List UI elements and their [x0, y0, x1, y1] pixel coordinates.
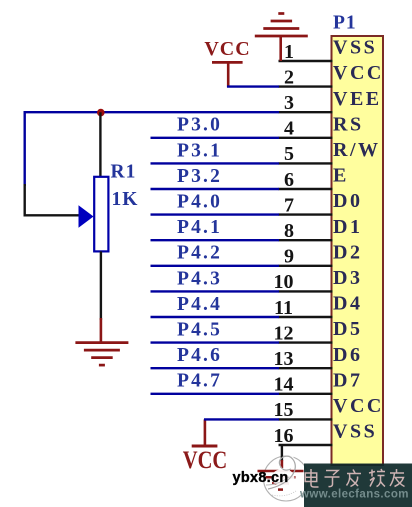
pin 12 stub wire: [279, 341, 333, 343]
svg-text:www.elecfans.com: www.elecfans.com: [299, 489, 409, 501]
svg-text:6: 6: [284, 169, 294, 191]
pin 8 stub wire: [279, 239, 333, 241]
power symbol VCC top (pin 2): [204, 38, 279, 88]
power symbol VCC bottom (pin 15): [183, 419, 279, 474]
svg-text:P4.3: P4.3: [177, 268, 222, 289]
svg-text:D5: D5: [333, 318, 362, 340]
svg-text:P4.7: P4.7: [177, 371, 222, 392]
svg-text:P1: P1: [333, 12, 357, 33]
svg-text:VCC: VCC: [333, 395, 384, 417]
svg-text:16: 16: [274, 425, 294, 447]
svg-text:VCC: VCC: [204, 38, 250, 60]
junction node dot: [97, 109, 105, 117]
pin 14 stub wire: [279, 393, 333, 395]
resistor R1 body: [94, 177, 108, 252]
wire P4.1 to pin 8: [151, 239, 280, 241]
svg-text:D6: D6: [333, 344, 362, 366]
pin 4 stub wire: [279, 137, 333, 139]
svg-text:10: 10: [274, 271, 294, 293]
svg-text:D2: D2: [333, 241, 362, 263]
svg-text:RS: RS: [333, 113, 364, 135]
svg-text:E: E: [333, 165, 349, 187]
svg-text:D3: D3: [333, 267, 362, 289]
svg-text:VEE: VEE: [333, 88, 382, 110]
watermark chinese glyphs: [305, 469, 404, 487]
wire net VEE pin 3: [24, 111, 280, 113]
wire P3.2 to pin 6: [151, 188, 280, 190]
svg-text:7: 7: [284, 194, 294, 216]
wire P3.1 to pin 5: [151, 162, 280, 164]
pin 1 stub wire: [279, 60, 333, 62]
svg-text:VCC: VCC: [333, 62, 384, 84]
svg-text:2: 2: [284, 66, 294, 88]
pin 6 stub wire: [279, 188, 333, 190]
pin 11 stub wire: [279, 316, 333, 318]
pin 7 stub wire: [279, 213, 333, 215]
wire P3.0 to pin 4: [151, 137, 280, 139]
wire P4.2 to pin 9: [151, 265, 280, 267]
wire P4.3 to pin 10: [151, 290, 280, 292]
wire R1 bottom lead: [100, 251, 102, 320]
svg-text:P3.2: P3.2: [177, 166, 222, 187]
svg-text:12: 12: [274, 322, 294, 344]
pin 10 stub wire: [279, 290, 333, 292]
potentiometer R1 wiper arrow: [79, 205, 94, 227]
svg-text:ybx8.cn: ybx8.cn: [233, 470, 289, 486]
svg-text:D1: D1: [333, 216, 362, 238]
svg-text:D0: D0: [333, 190, 362, 212]
wire R1 top lead: [99, 112, 101, 177]
wire wiper horizontal: [24, 214, 80, 216]
svg-text:R1: R1: [111, 162, 137, 183]
wire P4.7 to pin 14: [151, 393, 280, 395]
svg-text:P4.4: P4.4: [177, 294, 222, 315]
watermark swan blob: [272, 469, 295, 486]
svg-text:P4.2: P4.2: [177, 243, 222, 264]
svg-text:1K: 1K: [112, 189, 139, 210]
pin 16 stub wire: [279, 444, 333, 446]
pin 5 stub wire: [279, 162, 333, 164]
svg-text:11: 11: [274, 297, 293, 319]
wire P4.4 to pin 11: [151, 316, 280, 318]
pin 15 stub wire: [279, 418, 333, 420]
svg-text:13: 13: [274, 348, 294, 370]
watermark band: [304, 464, 412, 507]
svg-text:P4.6: P4.6: [177, 345, 222, 366]
ground symbol top (pin 1): [255, 14, 308, 62]
wire P4.6 to pin 13: [151, 367, 280, 369]
svg-text:VSS: VSS: [333, 37, 377, 59]
svg-text:D7: D7: [333, 369, 362, 391]
connector P1 body: [332, 36, 384, 465]
svg-text:3: 3: [284, 92, 294, 114]
svg-text:5: 5: [284, 143, 294, 165]
watermark swirl strokes: [266, 456, 296, 496]
ground symbol bottom-left (R1): [75, 318, 128, 365]
svg-text:VCC: VCC: [183, 447, 228, 474]
wire P4.5 to pin 12: [151, 341, 280, 343]
pin 13 stub wire: [279, 367, 333, 369]
svg-text:14: 14: [274, 374, 294, 396]
wire left vertical lower (wiper): [24, 184, 26, 216]
svg-text:P3.1: P3.1: [177, 140, 222, 161]
svg-text:P4.0: P4.0: [177, 192, 222, 213]
svg-text:15: 15: [274, 399, 294, 421]
watermark swirl logo circle: [264, 456, 309, 501]
svg-text:4: 4: [284, 118, 294, 140]
pin 9 stub wire: [279, 265, 333, 267]
svg-text:P4.1: P4.1: [177, 217, 222, 238]
wire pin 16 down: [281, 445, 283, 468]
svg-text:VSS: VSS: [333, 421, 377, 443]
ground symbol bottom-center (pin 16): [258, 471, 304, 490]
wire P4.0 to pin 7: [151, 213, 280, 215]
svg-text:1: 1: [284, 41, 294, 63]
svg-text:8: 8: [284, 220, 294, 242]
pin 2 stub wire: [279, 85, 333, 87]
wire left vertical (VEE net): [24, 111, 26, 186]
svg-text:P4.5: P4.5: [177, 320, 222, 341]
svg-text:P3.0: P3.0: [177, 115, 222, 136]
pin 3 stub wire: [279, 111, 333, 113]
svg-text:R/W: R/W: [333, 139, 381, 161]
svg-text:9: 9: [284, 246, 294, 268]
svg-text:D4: D4: [333, 293, 362, 315]
